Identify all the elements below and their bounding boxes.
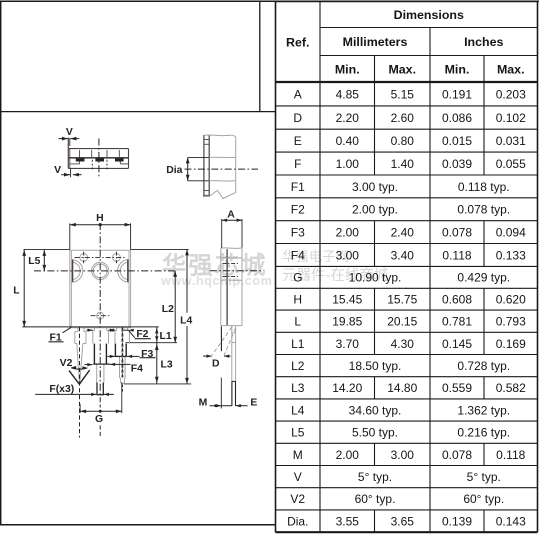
svg-text:0.039: 0.039: [442, 157, 472, 171]
page left border: [0, 1, 2, 525]
dimension L: [13, 250, 26, 327]
dimension H: [70, 213, 131, 250]
svg-text:2.40: 2.40: [391, 226, 415, 240]
dimension L4: [180, 249, 192, 384]
svg-text:14.80: 14.80: [387, 381, 417, 395]
Dia centerline: [185, 168, 259, 170]
svg-text:V2: V2: [290, 492, 305, 506]
svg-text:0.078: 0.078: [442, 226, 472, 240]
svg-text:H: H: [96, 213, 104, 224]
svg-text:5.50 typ.: 5.50 typ.: [352, 426, 398, 440]
svg-text:0.620: 0.620: [496, 293, 526, 307]
right lead shoulder box (F3): [115, 344, 127, 357]
svg-text:H: H: [293, 293, 302, 307]
svg-text:2.60: 2.60: [391, 111, 415, 125]
svg-text:Max.: Max.: [388, 62, 416, 76]
dimension V (bottom): [54, 165, 81, 177]
svg-text:L5: L5: [291, 426, 305, 440]
center lead shoulder box (F4): [93, 344, 110, 365]
svg-text:Min.: Min.: [445, 62, 470, 76]
svg-text:19.85: 19.85: [332, 315, 362, 329]
top view lead sections (3 black marks): [76, 158, 85, 161]
svg-text:18.50 typ.: 18.50 typ.: [349, 359, 402, 373]
svg-text:Min.: Min.: [335, 62, 360, 76]
svg-text:0.118: 0.118: [442, 248, 471, 262]
svg-text:F: F: [294, 157, 301, 171]
svg-text:V: V: [54, 165, 61, 176]
front view mounting hole: [92, 262, 109, 279]
front view vertical centerline: [99, 223, 101, 402]
svg-text:www.hqchip.com: www.hqchip.com: [160, 274, 273, 288]
svg-text:A: A: [227, 210, 235, 221]
svg-text:3.70: 3.70: [336, 337, 360, 351]
svg-text:A: A: [294, 87, 302, 101]
svg-text:3.00 typ.: 3.00 typ.: [352, 180, 398, 194]
svg-text:1.40: 1.40: [391, 157, 415, 171]
svg-text:2.00: 2.00: [336, 226, 360, 240]
svg-text:M: M: [199, 398, 208, 409]
svg-text:60° typ.: 60° typ.: [463, 492, 504, 506]
svg-text:1.362 typ.: 1.362 typ.: [457, 403, 510, 417]
svg-text:3.55: 3.55: [336, 514, 360, 528]
svg-text:F(x3): F(x3): [49, 384, 74, 395]
svg-text:L1: L1: [291, 337, 305, 351]
svg-text:0.031: 0.031: [496, 134, 526, 148]
right lead outline: [115, 328, 129, 384]
dimension F3 arrows: [107, 349, 155, 360]
dimensions table: [276, 2, 538, 533]
dimension Dia: [166, 157, 209, 180]
svg-text:L: L: [13, 285, 20, 296]
svg-text:2.20: 2.20: [336, 111, 360, 125]
dimension M and E: [199, 378, 258, 409]
side view body: [221, 248, 242, 326]
svg-text:34.60 typ.: 34.60 typ.: [349, 403, 402, 417]
svg-text:0.80: 0.80: [391, 134, 415, 148]
svg-text:L1: L1: [160, 331, 172, 342]
svg-text:V2: V2: [60, 358, 73, 369]
front view small locator circles: [75, 252, 126, 264]
Dia detail view: tab hole section: [204, 135, 236, 199]
svg-text:Dimensions: Dimensions: [394, 8, 464, 22]
svg-text:0.102: 0.102: [496, 111, 526, 125]
svg-text:10.90 typ.: 10.90 typ.: [349, 271, 402, 285]
svg-text:M: M: [293, 448, 303, 462]
svg-text:L5: L5: [28, 256, 40, 267]
svg-text:L: L: [294, 315, 301, 329]
top view: package seen from top: [68, 138, 128, 169]
front view body outline: [70, 249, 131, 327]
svg-text:4.85: 4.85: [336, 87, 360, 101]
svg-text:15.75: 15.75: [387, 293, 417, 307]
svg-text:0.203: 0.203: [496, 87, 526, 101]
svg-text:L3: L3: [291, 381, 305, 395]
svg-text:L4: L4: [291, 403, 305, 417]
svg-text:F4: F4: [131, 363, 143, 374]
side view lead: [232, 326, 236, 406]
svg-text:0.133: 0.133: [496, 248, 526, 262]
svg-text:Dia: Dia: [166, 165, 182, 176]
svg-text:5.15: 5.15: [391, 87, 415, 101]
svg-text:Ref.: Ref.: [286, 35, 309, 49]
page top border: [0, 0, 539, 2]
front view side notches: [72, 260, 129, 283]
top view vertical centerline: [98, 139, 100, 177]
svg-text:E: E: [294, 134, 302, 148]
svg-text:0.793: 0.793: [496, 315, 526, 329]
dimension F2 arrows: [86, 329, 150, 341]
svg-text:0.582: 0.582: [496, 381, 526, 395]
table data text: [287, 87, 526, 528]
svg-text:4.30: 4.30: [391, 337, 415, 351]
svg-text:0.139: 0.139: [442, 514, 472, 528]
svg-text:15.45: 15.45: [332, 293, 362, 307]
dimension L1: [155, 327, 172, 343]
svg-text:0.078 typ.: 0.078 typ.: [457, 203, 510, 217]
dimension G: [80, 382, 122, 425]
auxiliary vertical line: [220, 326, 222, 351]
V2 lead tip angle lines: [69, 370, 90, 384]
svg-text:F2: F2: [291, 203, 305, 217]
svg-text:3.00: 3.00: [336, 248, 360, 262]
svg-text:L4: L4: [180, 315, 192, 326]
svg-text:0.429 typ.: 0.429 typ.: [457, 271, 510, 285]
svg-text:F1: F1: [291, 180, 305, 194]
svg-text:0.094: 0.094: [496, 226, 526, 240]
center lead outline: [93, 328, 109, 383]
svg-text:0.559: 0.559: [442, 381, 472, 395]
svg-text:0.191: 0.191: [442, 87, 472, 101]
left lead outline: [75, 328, 86, 383]
hole horizontal centerline: [34, 270, 177, 272]
svg-text:0.608: 0.608: [442, 293, 472, 307]
svg-text:1.00: 1.00: [336, 157, 360, 171]
side view hole section lines: [221, 258, 242, 281]
svg-text:F4: F4: [291, 248, 305, 262]
dimension L5: [28, 250, 46, 271]
svg-text:Millimeters: Millimeters: [343, 35, 408, 49]
svg-text:Max.: Max.: [497, 62, 525, 76]
dimension F4 arrow: [85, 363, 144, 375]
header box right line: [259, 1, 261, 112]
svg-text:0.728 typ.: 0.728 typ.: [457, 359, 510, 373]
svg-text:0.078: 0.078: [442, 448, 472, 462]
dimension V (top): [59, 127, 80, 146]
seating plane line: [22, 326, 158, 328]
center lead tip box: [97, 383, 104, 395]
svg-text:L3: L3: [161, 360, 173, 371]
svg-text:5° typ.: 5° typ.: [358, 470, 392, 484]
svg-text:Dia.: Dia.: [287, 514, 308, 528]
body top extension line: [23, 248, 69, 250]
svg-text:G: G: [95, 414, 103, 425]
dimension F(x3): [35, 384, 114, 396]
svg-text:2.00 typ.: 2.00 typ.: [352, 203, 398, 217]
svg-text:0.118: 0.118: [496, 448, 525, 462]
top view hidden lead lines: [91, 160, 93, 170]
svg-text:3.65: 3.65: [391, 514, 415, 528]
svg-text:D: D: [293, 111, 302, 125]
svg-text:D: D: [212, 358, 220, 369]
svg-text:20.15: 20.15: [387, 315, 417, 329]
svg-text:L2: L2: [291, 359, 305, 373]
drawing area bottom line: [0, 524, 276, 526]
dimension A: [222, 210, 242, 248]
svg-text:0.086: 0.086: [442, 111, 472, 125]
header box bottom line: [0, 111, 276, 113]
table header text: [286, 8, 524, 76]
svg-text:0.143: 0.143: [496, 514, 526, 528]
front view lower locator circle: [91, 312, 111, 319]
svg-text:0.40: 0.40: [336, 134, 360, 148]
svg-text:E: E: [250, 398, 257, 409]
svg-text:0.169: 0.169: [496, 337, 526, 351]
svg-text:0.015: 0.015: [442, 134, 472, 148]
dimension L3: [155, 343, 173, 384]
V2 angle arc: [60, 358, 88, 370]
svg-text:0.781: 0.781: [442, 315, 472, 329]
left lead centerline: [79, 327, 81, 438]
svg-text:G: G: [293, 271, 302, 285]
svg-text:L2: L2: [162, 304, 174, 315]
svg-text:3.40: 3.40: [391, 248, 415, 262]
side view hole centerline: [210, 270, 262, 272]
svg-text:3.00: 3.00: [391, 448, 415, 462]
dimension D leaders: [203, 327, 236, 369]
extension line at lead shoulder bottom: [126, 342, 178, 344]
svg-text:0.216 typ.: 0.216 typ.: [457, 426, 510, 440]
svg-text:0.145: 0.145: [442, 337, 472, 351]
svg-text:60° typ.: 60° typ.: [355, 492, 396, 506]
extension line at lead tip: [124, 383, 191, 385]
svg-text:V: V: [66, 127, 73, 138]
svg-text:F3: F3: [291, 226, 305, 240]
svg-text:0.055: 0.055: [496, 157, 526, 171]
dimension F1 label and leader: [49, 327, 72, 343]
dimension L2: [162, 271, 177, 343]
svg-text:Inches: Inches: [464, 35, 503, 49]
svg-text:5° typ.: 5° typ.: [467, 470, 501, 484]
svg-text:V: V: [294, 470, 302, 484]
svg-text:2.00: 2.00: [336, 448, 360, 462]
svg-text:0.118 typ.: 0.118 typ.: [458, 180, 510, 194]
right lead centerline: [121, 329, 123, 378]
svg-text:14.20: 14.20: [332, 381, 362, 395]
